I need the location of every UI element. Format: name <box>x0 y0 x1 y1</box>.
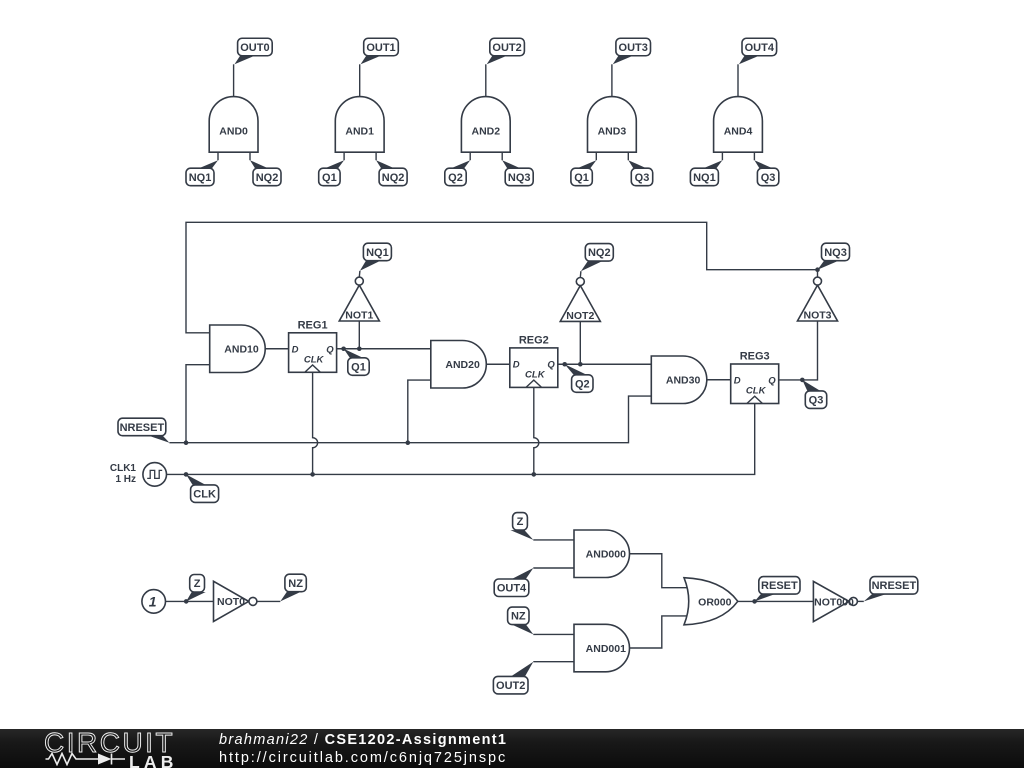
AND gate AND30 <box>651 356 707 404</box>
D flip-flop REG3 <box>731 351 779 404</box>
svg-text:NOT0: NOT0 <box>217 596 245 608</box>
wire NOT000 output <box>857 600 863 602</box>
footer title text <box>219 732 507 748</box>
wire NQ3 feedback net (NOT3 output to AND10 input A) <box>186 222 818 332</box>
svg-text:Q3: Q3 <box>635 172 650 184</box>
node NQ1 label (AND0 input A) <box>186 160 218 186</box>
footer bar <box>0 729 1024 768</box>
node Q2 label <box>565 364 593 392</box>
svg-text:Q: Q <box>547 360 555 371</box>
junction Q3 label anchor <box>800 378 805 383</box>
wire AND20 output to REG2 D <box>486 363 510 365</box>
svg-text:OUT2: OUT2 <box>492 42 521 54</box>
node OUT0 label <box>235 38 273 64</box>
node Q2 label (AND2 input A) <box>445 160 470 186</box>
inverter NOT1 <box>339 277 379 321</box>
AND gate AND2 <box>461 97 510 153</box>
CircuitLab logo resistor and diode symbol <box>42 752 127 766</box>
node NQ3 label <box>818 243 850 270</box>
svg-text:OUT3: OUT3 <box>619 42 648 54</box>
wire NRESET net <box>169 396 651 443</box>
svg-text:OUT1: OUT1 <box>366 42 395 54</box>
wire AND4 output <box>737 64 739 96</box>
node Q1 label (AND3 input A) <box>571 160 596 186</box>
AND gate AND10 <box>210 325 266 373</box>
wire AND001 output to OR000 input B <box>630 616 690 648</box>
svg-text:NOT000: NOT000 <box>814 596 854 608</box>
node NRESET label <box>864 577 918 602</box>
svg-text:REG1: REG1 <box>298 319 328 331</box>
wire AND2 output <box>485 64 487 96</box>
node Q1 label <box>344 349 370 376</box>
svg-text:Q1: Q1 <box>322 172 337 184</box>
svg-text:NQ2: NQ2 <box>588 247 611 259</box>
wire AND0 output <box>233 64 235 96</box>
node Q3 label (AND4 input B) <box>754 160 778 186</box>
svg-text:REG3: REG3 <box>740 351 770 363</box>
svg-text:CLK: CLK <box>525 369 546 380</box>
AND gate AND4 <box>714 97 763 153</box>
node RESET label <box>755 577 800 602</box>
svg-text:NZ: NZ <box>288 578 303 590</box>
svg-text:NQ1: NQ1 <box>366 247 389 259</box>
svg-text:AND3: AND3 <box>598 126 627 138</box>
svg-text:NQ1: NQ1 <box>693 172 716 184</box>
AND gate AND000 <box>574 530 630 578</box>
svg-text:CLK: CLK <box>746 386 767 397</box>
svg-text:CLK1: CLK1 <box>110 463 137 474</box>
svg-text:AND0: AND0 <box>219 126 248 138</box>
junction Q1 label anchor <box>341 346 346 351</box>
D flip-flop REG2 <box>510 335 558 388</box>
svg-text:OUT4: OUT4 <box>745 42 775 54</box>
AND gate AND1 <box>335 97 384 153</box>
svg-text:D: D <box>292 344 299 355</box>
D flip-flop REG1 <box>289 319 337 372</box>
wire NOT1 output stub <box>358 271 361 277</box>
svg-text:AND2: AND2 <box>472 126 501 138</box>
svg-text:Q1: Q1 <box>574 172 589 184</box>
svg-text:NQ2: NQ2 <box>382 172 405 184</box>
svg-text:NQ3: NQ3 <box>508 172 531 184</box>
inverter NOT3 <box>797 277 837 321</box>
svg-text:AND30: AND30 <box>666 375 701 387</box>
node Z label (AND000 input A) <box>510 513 533 540</box>
svg-text:NOT2: NOT2 <box>566 310 594 322</box>
wire NRESET net to AND10 input B <box>186 365 210 443</box>
node NRESET label <box>118 418 169 443</box>
node OUT1 label <box>361 38 399 64</box>
node NQ3 label (AND2 input B) <box>502 160 533 186</box>
svg-text:D: D <box>734 376 741 387</box>
svg-text:NOT1: NOT1 <box>345 309 373 321</box>
AND gate AND0 <box>209 97 258 153</box>
footer url text <box>219 750 507 766</box>
constant 1 source V1 <box>142 590 166 614</box>
node NQ2 label (AND0 input B) <box>250 160 281 186</box>
svg-text:1: 1 <box>149 594 157 610</box>
junction NRESET at AND20 branch <box>406 440 411 445</box>
wire AND4 input stubs <box>722 152 754 160</box>
svg-text:OUT4: OUT4 <box>497 583 527 595</box>
wire OUT2 to AND001 input B <box>533 661 574 663</box>
junction Q1 to NOT1 branch <box>357 346 362 351</box>
node Q3 label (AND3 input B) <box>628 160 652 186</box>
svg-text:RESET: RESET <box>761 580 798 592</box>
wire OR000 output to NOT000 input <box>738 600 814 602</box>
node NZ label <box>280 574 306 601</box>
junction Q2 to NOT2 branch <box>578 362 583 367</box>
svg-text:Z: Z <box>517 516 524 528</box>
svg-text:Q2: Q2 <box>448 172 463 184</box>
svg-text:Q3: Q3 <box>809 395 824 407</box>
svg-text:Q3: Q3 <box>761 172 776 184</box>
OR gate OR000 <box>684 578 738 625</box>
svg-text:AND1: AND1 <box>345 126 374 138</box>
svg-text:Q1: Q1 <box>351 361 366 373</box>
wire OUT4 to AND000 input B <box>533 567 574 569</box>
svg-text:NQ3: NQ3 <box>824 247 847 259</box>
wire AND1 input stubs <box>344 152 376 160</box>
svg-text:NRESET: NRESET <box>872 580 917 592</box>
junction CLK label anchor <box>184 472 189 477</box>
junction Z label anchor <box>184 599 189 604</box>
junction RESET label anchor <box>752 599 757 604</box>
inverter NOT000 <box>813 581 857 621</box>
svg-text:NQ2: NQ2 <box>256 172 279 184</box>
svg-text:Q: Q <box>326 344 334 355</box>
node NQ1 label <box>360 243 392 271</box>
wire Z to AND000 input A <box>533 539 574 541</box>
node Q1 label (AND1 input A) <box>319 160 344 186</box>
wire Z net: source to NOT0 input <box>166 600 214 602</box>
svg-text:Q2: Q2 <box>575 378 590 390</box>
node Z label <box>186 575 206 602</box>
wire AND3 output <box>611 64 613 96</box>
wire Q1 to NOT1 input <box>358 321 360 349</box>
svg-text:CLK: CLK <box>304 354 325 365</box>
node CLK label <box>186 474 219 502</box>
svg-text:AND10: AND10 <box>224 344 259 356</box>
CircuitLab logo text LAB <box>129 752 178 773</box>
svg-text:AND4: AND4 <box>724 126 753 138</box>
svg-text:AND001: AND001 <box>586 643 626 655</box>
wire AND2 input stubs <box>470 152 502 160</box>
wire NRESET to AND20 input B <box>408 380 431 443</box>
svg-text:NOT3: NOT3 <box>803 309 831 321</box>
wire AND10 output to REG1 D <box>265 348 288 350</box>
wire AND30 output to REG3 D <box>707 379 731 381</box>
svg-text:AND000: AND000 <box>586 549 626 561</box>
wire Q2 to NOT2 input <box>579 321 581 364</box>
svg-text:Q: Q <box>768 376 776 387</box>
svg-text:OUT2: OUT2 <box>496 680 525 692</box>
svg-text:Z: Z <box>194 578 201 590</box>
junction NRESET at AND10 branch <box>184 440 189 445</box>
wire AND0 input stubs <box>218 152 250 160</box>
wire AND3 input stubs <box>596 152 628 160</box>
node OUT4 label (AND000 input B) <box>494 568 533 597</box>
wire NOT2 output stub <box>579 271 582 277</box>
svg-text:D: D <box>513 360 520 371</box>
node OUT4 label <box>739 38 777 64</box>
junction CLK net at REG2 <box>532 472 537 477</box>
AND gate AND20 <box>431 341 487 389</box>
wire CLK net <box>167 404 755 475</box>
node OUT2 label <box>487 38 525 64</box>
CircuitLab logo text CIRCUIT <box>44 727 175 759</box>
wire REG1 CLK to CLK net (hop over NRESET) <box>313 372 318 474</box>
clock source CLK1 <box>110 463 167 487</box>
inverter NOT0 <box>214 581 257 621</box>
node NQ2 label (AND1 input B) <box>376 160 407 186</box>
wire Q3 net: REG3 Q to NOT3 input <box>779 321 818 380</box>
svg-text:AND20: AND20 <box>445 359 480 371</box>
svg-text:REG2: REG2 <box>519 335 549 347</box>
wire AND1 output <box>359 64 361 96</box>
wire Q2 net: REG2 Q to AND30 input A <box>558 363 652 365</box>
AND gate AND001 <box>574 624 630 672</box>
wire AND000 output to OR000 input A <box>630 554 690 588</box>
svg-text:NZ: NZ <box>511 611 526 623</box>
junction CLK net at REG1 <box>310 472 315 477</box>
AND gate AND3 <box>588 97 637 153</box>
svg-text:1 Hz: 1 Hz <box>115 474 136 485</box>
node NQ2 label <box>581 244 613 272</box>
inverter NOT2 <box>560 278 600 322</box>
svg-text:OUT0: OUT0 <box>240 42 269 54</box>
node Q3 label <box>802 380 826 409</box>
junction Q2 label anchor <box>562 362 567 367</box>
node NQ1 label (AND4 input A) <box>690 160 722 186</box>
node NZ label (AND001 input A) <box>508 607 534 634</box>
svg-text:CLK: CLK <box>193 489 216 501</box>
svg-text:NRESET: NRESET <box>120 422 165 434</box>
svg-text:NQ1: NQ1 <box>189 172 212 184</box>
node OUT2 label (AND001 input B) <box>493 662 533 694</box>
wire NOT0 output <box>257 600 280 602</box>
wire NZ to AND001 input A <box>533 633 574 635</box>
node OUT3 label <box>613 38 651 64</box>
junction NQ3 net at label anchor <box>815 267 820 272</box>
wire REG2 CLK to CLK net (hop over NRESET) <box>534 387 539 474</box>
svg-text:OR000: OR000 <box>698 596 731 608</box>
wire Q1 net: REG1 Q to AND20 input A <box>337 348 431 350</box>
